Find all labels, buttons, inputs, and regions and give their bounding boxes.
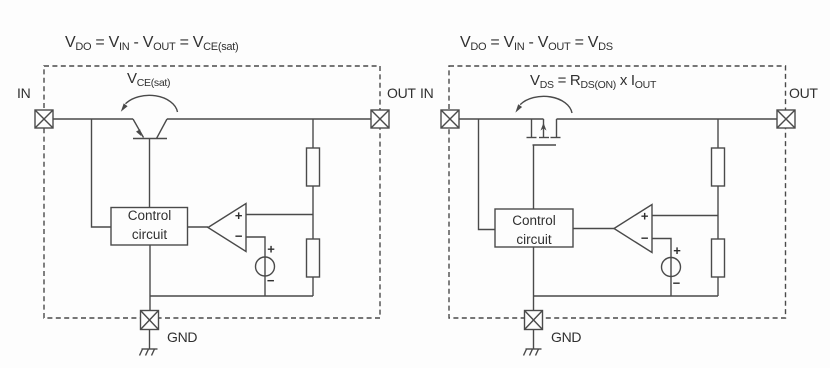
svg-text:−: − bbox=[267, 273, 275, 288]
wire IN rail to source bbox=[459, 118, 544, 120]
wire R3 to R4 bbox=[717, 186, 719, 239]
pin label IN right bbox=[420, 85, 433, 101]
op-amp U2 bbox=[614, 205, 652, 253]
wire gate drop bbox=[533, 145, 535, 209]
terminal IN right bbox=[441, 110, 459, 128]
wire IN rail to emitter bbox=[53, 118, 133, 120]
resistor R3 right upper bbox=[712, 148, 725, 186]
pin label OUT left bbox=[387, 85, 416, 101]
pin label OUT right bbox=[789, 85, 818, 101]
resistor R4 right lower bbox=[712, 239, 725, 277]
control circuit text right bbox=[495, 211, 573, 249]
bottom rail right diagram bbox=[534, 295, 719, 297]
svg-text:−: − bbox=[673, 276, 681, 291]
control circuit text left bbox=[111, 206, 188, 244]
title left equation bbox=[65, 34, 238, 53]
wire base drop bbox=[149, 139, 151, 208]
pin label GND right bbox=[551, 329, 581, 345]
wire IN drop to control right bbox=[479, 119, 496, 230]
resistor R1 left upper bbox=[307, 148, 320, 186]
pin label GND left bbox=[167, 329, 197, 345]
label VCE(sat) over transistor bbox=[127, 70, 170, 89]
wire R2 to bottom rail bbox=[312, 277, 314, 296]
wire control to op-amp bbox=[188, 226, 209, 228]
svg-text:−: − bbox=[235, 229, 243, 244]
svg-text:+: + bbox=[235, 208, 243, 223]
ground symbol left bbox=[140, 349, 158, 356]
wire control to op-amp right bbox=[573, 228, 614, 230]
terminal OUT right bbox=[777, 110, 795, 128]
wire op-amp plus input to divider node right bbox=[652, 215, 718, 217]
wire control to GND bbox=[149, 245, 151, 311]
wire control to GND right bbox=[533, 247, 535, 311]
arrow arc VDS bbox=[515, 96, 572, 113]
ground symbol right bbox=[524, 349, 542, 356]
title right equation bbox=[460, 34, 613, 53]
voltage reference V2 bbox=[662, 243, 682, 290]
dashed enclosure left bbox=[44, 66, 380, 318]
terminal GND right bbox=[525, 311, 543, 330]
op-amp U1 bbox=[208, 204, 246, 252]
wire R4 to bottom rail right bbox=[717, 277, 719, 296]
control circuit box left bbox=[111, 208, 188, 246]
terminal GND left bbox=[141, 311, 159, 330]
voltage reference V1 bbox=[256, 242, 276, 288]
svg-text:−: − bbox=[641, 230, 649, 245]
wire OUT node down to R1 bbox=[312, 119, 314, 148]
label VDS equation over mosfet bbox=[530, 72, 656, 91]
transistor Q1 pass PNP bbox=[133, 119, 167, 139]
terminal IN left bbox=[35, 110, 53, 128]
arrow arc VCE(sat) bbox=[121, 95, 178, 112]
svg-text:+: + bbox=[267, 242, 275, 257]
wire op-amp plus input to divider node bbox=[246, 214, 313, 216]
svg-text:+: + bbox=[641, 209, 649, 224]
svg-text:+: + bbox=[673, 243, 681, 258]
dashed enclosure right bbox=[449, 66, 786, 318]
wire drain to OUT rail bbox=[557, 118, 778, 120]
wire R1 to R2 bbox=[312, 186, 314, 239]
wire op-amp minus input to reference bbox=[246, 237, 265, 296]
control circuit box right bbox=[495, 209, 573, 247]
wire GND terminal to ground right bbox=[533, 330, 535, 350]
wire OUT node down to R3 bbox=[717, 119, 719, 148]
pin label IN left bbox=[17, 85, 30, 101]
wire GND terminal to ground bbox=[149, 330, 151, 350]
bottom rail left diagram bbox=[150, 295, 313, 297]
wire IN drop to control bbox=[92, 119, 112, 227]
transistor Q2 pass PMOS bbox=[527, 119, 561, 145]
wire op-amp minus input to reference right bbox=[652, 239, 671, 297]
wire collector to OUT rail bbox=[167, 118, 371, 120]
terminal OUT left bbox=[371, 110, 389, 128]
resistor R2 left lower bbox=[307, 239, 320, 277]
